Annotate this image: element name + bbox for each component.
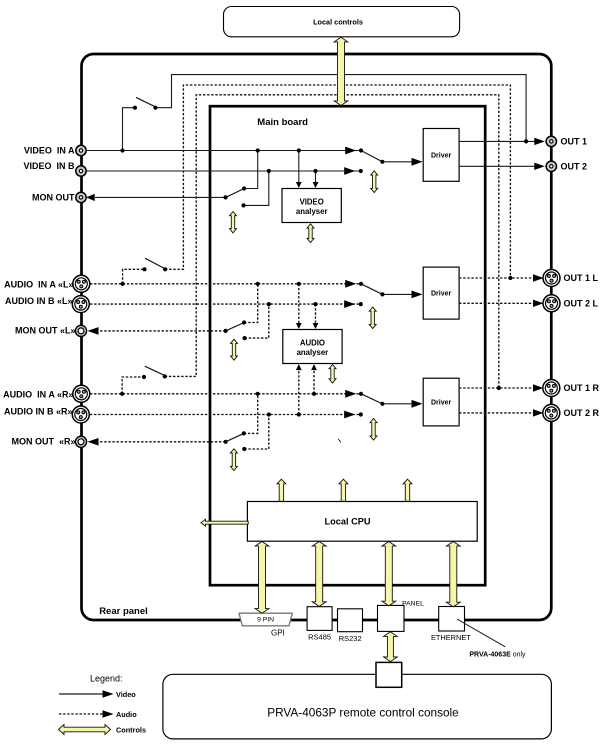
svg-text:PANEL: PANEL [402,600,424,607]
svg-text:PRVA-4063E only: PRVA-4063E only [469,651,526,658]
svg-text:AUDIO IN A «L»: AUDIO IN A «L» [4,280,73,290]
svg-text:OUT 1 L: OUT 1 L [564,273,599,283]
svg-text:MON OUT: MON OUT [32,192,75,202]
svg-text:analyser: analyser [297,348,329,357]
svg-text:ETHERNET: ETHERNET [431,633,471,642]
svg-text:Rear panel: Rear panel [99,606,148,617]
svg-text:OUT 2 L: OUT 2 L [564,299,599,309]
svg-text:OUT 1: OUT 1 [561,137,588,147]
svg-text:analyser: analyser [296,207,328,216]
svg-text:Driver: Driver [431,152,452,159]
svg-text:PRVA-4063P remote control cons: PRVA-4063P remote control console [267,706,459,720]
svg-text:Main board: Main board [257,117,308,128]
svg-text:RS232: RS232 [339,634,362,643]
svg-text:Local CPU: Local CPU [325,517,371,527]
svg-text:AUDIO IN B «R»: AUDIO IN B «R» [4,406,73,416]
svg-text:Local controls: Local controls [313,18,363,27]
svg-text:9 PIN: 9 PIN [257,616,274,623]
svg-text:Legend:: Legend: [90,674,123,684]
svg-text:VIDEO IN B: VIDEO IN B [23,161,75,171]
svg-text:Controls: Controls [116,726,146,735]
svg-text:OUT 1 R: OUT 1 R [564,383,600,393]
svg-text:OUT 2 R: OUT 2 R [564,408,600,418]
svg-text:VIDEO: VIDEO [300,197,324,206]
svg-text:Driver: Driver [431,291,452,298]
svg-text:MON OUT «R»: MON OUT «R» [11,437,75,447]
svg-text:OUT 2: OUT 2 [561,162,588,172]
svg-text:Audio: Audio [116,710,137,719]
svg-text:AUDIO IN A «R»: AUDIO IN A «R» [3,390,73,400]
svg-text:VIDEO IN A: VIDEO IN A [24,145,75,155]
svg-text:AUDIO IN B «L»: AUDIO IN B «L» [5,296,73,306]
svg-text:Video: Video [116,690,136,699]
svg-text:RS485: RS485 [308,632,331,641]
svg-text:Driver: Driver [431,399,452,406]
svg-text:GPI: GPI [271,628,285,637]
svg-text:AUDIO: AUDIO [300,338,325,347]
svg-text:MON OUT «L»: MON OUT «L» [15,326,76,336]
